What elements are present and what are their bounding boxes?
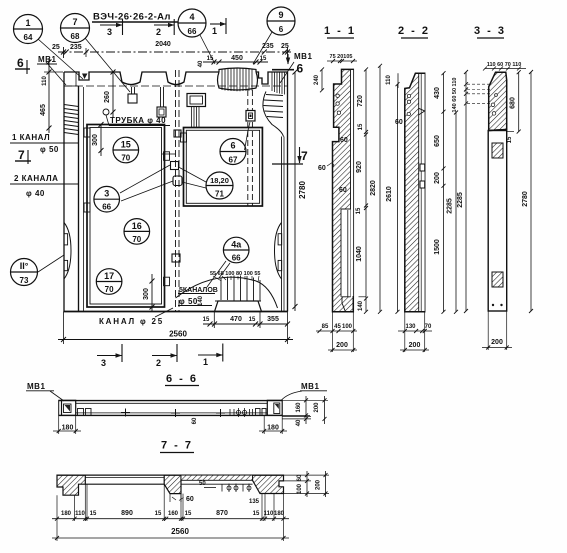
svg-text:1: 1	[212, 26, 217, 36]
svg-text:2560: 2560	[171, 527, 189, 536]
svg-text:15: 15	[203, 317, 210, 323]
svg-text:17: 17	[104, 271, 114, 281]
svg-text:66: 66	[232, 254, 241, 263]
svg-text:40: 40	[296, 419, 302, 426]
svg-text:7 - 7: 7 - 7	[161, 440, 193, 452]
svg-text:2: 2	[156, 358, 161, 368]
svg-text:240: 240	[314, 74, 320, 85]
svg-text:25: 25	[281, 43, 289, 50]
svg-text:15: 15	[260, 56, 267, 62]
svg-text:φ 40: φ 40	[26, 189, 45, 198]
svg-text:3: 3	[101, 358, 106, 368]
svg-text:7: 7	[18, 148, 25, 162]
svg-text:60: 60	[339, 187, 347, 194]
svg-text:60: 60	[318, 165, 326, 172]
svg-text:110: 110	[386, 75, 392, 85]
svg-text:3: 3	[104, 189, 109, 199]
svg-text:180: 180	[267, 424, 279, 431]
svg-text:15: 15	[207, 56, 214, 62]
svg-text:1: 1	[25, 18, 30, 28]
svg-text:МВ1: МВ1	[301, 382, 319, 391]
svg-text:КАНАЛ φ 25: КАНАЛ φ 25	[99, 317, 164, 326]
svg-text:6: 6	[297, 62, 304, 76]
svg-text:2 - 2: 2 - 2	[398, 25, 430, 37]
svg-text:430: 430	[434, 87, 441, 99]
svg-text:φ 50: φ 50	[179, 297, 198, 306]
svg-text:40: 40	[198, 60, 204, 67]
svg-text:1: 1	[203, 357, 208, 367]
svg-text:66: 66	[188, 27, 197, 36]
svg-text:870: 870	[216, 510, 228, 517]
svg-text:2780: 2780	[298, 181, 307, 199]
svg-text:15: 15	[121, 140, 131, 150]
svg-text:470: 470	[230, 316, 242, 323]
svg-text:60: 60	[186, 496, 194, 503]
svg-text:180: 180	[62, 424, 74, 431]
svg-text:71: 71	[215, 190, 224, 199]
svg-text:300: 300	[143, 288, 150, 300]
svg-text:15: 15	[249, 317, 256, 323]
svg-text:ТРУБКА φ 40: ТРУБКА φ 40	[110, 116, 166, 125]
svg-text:1 - 1: 1 - 1	[324, 25, 356, 37]
svg-text:2 КАНАЛА: 2 КАНАЛА	[14, 174, 58, 183]
svg-text:180: 180	[274, 511, 285, 517]
svg-text:5КАНАЛОВ: 5КАНАЛОВ	[179, 287, 218, 294]
svg-text:2285: 2285	[447, 198, 454, 214]
svg-text:75 20105: 75 20105	[330, 54, 353, 60]
svg-text:7: 7	[301, 149, 308, 163]
svg-text:МВ1: МВ1	[38, 55, 56, 64]
svg-text:6: 6	[17, 56, 24, 70]
svg-text:200: 200	[336, 342, 348, 349]
svg-text:680: 680	[510, 97, 517, 109]
svg-text:3: 3	[107, 27, 112, 37]
svg-text:890: 890	[121, 510, 133, 517]
svg-text:73: 73	[20, 276, 29, 285]
svg-text:66: 66	[102, 203, 111, 212]
svg-text:60: 60	[192, 417, 198, 424]
svg-text:68: 68	[71, 32, 80, 41]
svg-text:4a: 4a	[231, 240, 242, 250]
svg-text:18,20: 18,20	[210, 176, 229, 185]
svg-text:55 68 100 80 100 55: 55 68 100 80 100 55	[210, 271, 260, 277]
svg-text:2820: 2820	[370, 180, 377, 196]
svg-text:160: 160	[168, 511, 179, 517]
svg-text:100: 100	[297, 483, 303, 494]
svg-text:3 - 3: 3 - 3	[474, 25, 506, 37]
svg-text:6 - 6: 6 - 6	[166, 373, 198, 385]
svg-text:2040: 2040	[155, 41, 171, 48]
svg-text:15: 15	[356, 207, 362, 214]
svg-text:1 КАНАЛ: 1 КАНАЛ	[12, 133, 50, 142]
svg-text:МВ1: МВ1	[294, 52, 312, 61]
svg-text:450: 450	[231, 55, 243, 62]
svg-text:300: 300	[92, 134, 99, 146]
svg-text:15: 15	[185, 511, 192, 517]
svg-text:15: 15	[507, 136, 513, 143]
svg-text:6: 6	[230, 141, 235, 151]
svg-text:9: 9	[278, 10, 283, 20]
svg-text:2560: 2560	[169, 330, 187, 339]
svg-text:130: 130	[405, 324, 416, 330]
svg-text:7: 7	[72, 17, 77, 27]
svg-text:140: 140	[358, 300, 364, 311]
svg-text:920: 920	[356, 161, 363, 173]
svg-text:ВЭЧ-26·26-2-Ал: ВЭЧ-26·26-2-Ал	[93, 12, 171, 23]
svg-text:4: 4	[189, 12, 194, 22]
svg-text:100: 100	[342, 324, 353, 330]
svg-text:70: 70	[425, 324, 432, 330]
svg-text:110 60 70 110: 110 60 70 110	[487, 62, 522, 68]
svg-text:70: 70	[132, 235, 141, 244]
svg-text:70: 70	[105, 285, 114, 294]
svg-text:15: 15	[358, 123, 364, 130]
svg-text:2780: 2780	[522, 191, 529, 207]
svg-text:15: 15	[90, 511, 97, 517]
svg-text:6: 6	[279, 25, 284, 34]
svg-text:64: 64	[24, 33, 33, 42]
svg-text:260: 260	[104, 91, 111, 103]
svg-text:140 60 50 110: 140 60 50 110	[452, 78, 458, 113]
svg-text:110: 110	[264, 511, 274, 517]
svg-text:1500: 1500	[434, 239, 441, 255]
svg-text:2285: 2285	[457, 192, 464, 208]
svg-text:235: 235	[262, 43, 274, 50]
svg-text:355: 355	[267, 316, 279, 323]
svg-text:235: 235	[70, 44, 82, 51]
svg-text:200: 200	[491, 339, 503, 346]
svg-text:60: 60	[297, 474, 303, 481]
svg-text:50: 50	[199, 481, 206, 487]
svg-text:2: 2	[156, 27, 161, 37]
svg-text:200: 200	[316, 479, 322, 490]
svg-text:15: 15	[155, 511, 162, 517]
svg-text:200: 200	[314, 402, 320, 413]
svg-text:2610: 2610	[386, 186, 393, 202]
svg-text:180: 180	[61, 511, 72, 517]
svg-text:16: 16	[132, 221, 142, 231]
svg-text:110: 110	[75, 511, 85, 517]
svg-text:465: 465	[40, 104, 47, 116]
svg-text:60: 60	[395, 119, 403, 126]
svg-text:650: 650	[434, 135, 441, 147]
svg-text:200: 200	[409, 342, 421, 349]
svg-text:МВ1: МВ1	[27, 382, 45, 391]
svg-text:720: 720	[357, 95, 364, 107]
svg-text:70: 70	[121, 154, 130, 163]
svg-text:1040: 1040	[356, 246, 363, 262]
svg-text:200: 200	[434, 172, 441, 184]
svg-text:160: 160	[296, 402, 302, 413]
svg-text:135: 135	[249, 499, 260, 505]
svg-text:85: 85	[322, 324, 329, 330]
svg-text:140: 140	[198, 295, 204, 306]
svg-text:67: 67	[229, 156, 238, 165]
svg-text:45: 45	[334, 324, 341, 330]
svg-text:25: 25	[52, 44, 60, 51]
svg-text:60: 60	[340, 137, 348, 144]
svg-text:II°: II°	[20, 261, 29, 271]
svg-text:15: 15	[253, 511, 260, 517]
svg-text:110: 110	[42, 76, 48, 86]
svg-text:φ 50: φ 50	[40, 145, 59, 154]
